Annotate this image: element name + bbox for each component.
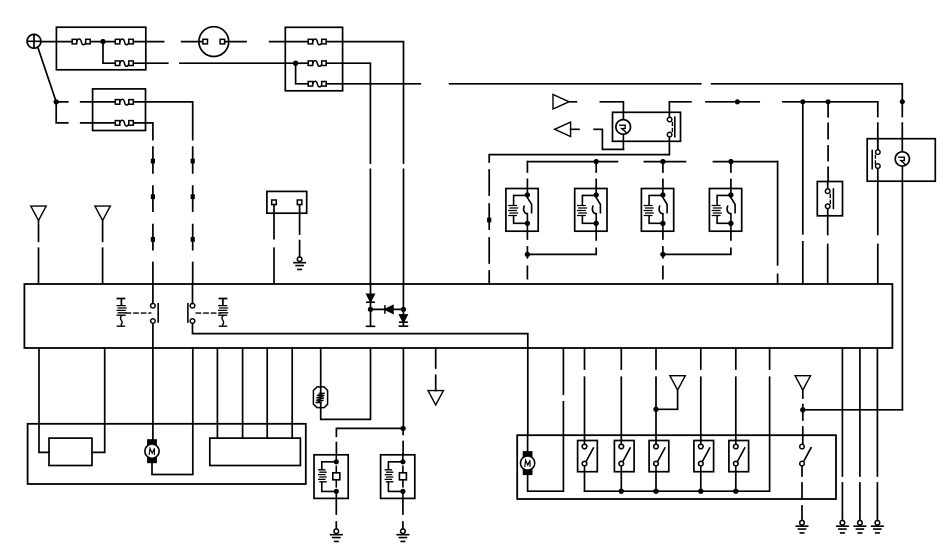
control unit box — [24, 284, 892, 348]
control block — [210, 438, 301, 465]
node connector marker row3 right — [191, 237, 195, 242]
wire sensor4 into block — [291, 424, 293, 438]
wire ECU pin to heater unit second — [104, 348, 106, 424]
wire ECU pin switch4 — [700, 348, 702, 441]
wire tap to connector triangle A — [656, 390, 678, 409]
connector triangle to ignition switch — [553, 95, 569, 110]
node relay feed split — [400, 426, 405, 431]
wire ECU pin relay feed — [402, 348, 404, 428]
fuse box FB1 — [56, 27, 145, 70]
node ignition bus to switch drop — [826, 99, 831, 104]
wire drop ignition bus to control unit — [802, 102, 804, 284]
warning lamp thermal element — [313, 387, 327, 408]
ignition switch box — [613, 112, 681, 141]
wire ECU pin washer motor feed — [527, 348, 529, 435]
node bus relay K4 — [728, 159, 733, 164]
internal relay RYA dashed link — [126, 312, 151, 314]
wire ECU pin sensor4 — [291, 348, 293, 424]
wire ECU pin ground1 — [841, 348, 843, 520]
internal relay RYB dashed link — [196, 312, 221, 314]
node FB3 junction — [293, 61, 298, 66]
ground relay A — [331, 529, 342, 542]
relay K4 — [709, 189, 741, 232]
wire F7 output down to diode D1 — [326, 63, 370, 284]
wire motor1 feed — [152, 424, 154, 445]
wire S2 to bus — [620, 472, 622, 492]
wire ECU pin switch bus — [769, 348, 771, 435]
switch S6 contacts — [800, 444, 811, 466]
connector triangle antenna second — [95, 206, 110, 220]
wire ECU pin sensor3 — [266, 348, 268, 424]
wire junction down to fuse F5 — [56, 102, 115, 123]
switch S4 — [694, 441, 714, 472]
node switch6 tap — [800, 407, 805, 412]
connector triangle antenna left — [31, 206, 46, 220]
relay K3 — [641, 189, 673, 232]
fuse F3 — [115, 61, 133, 67]
wire pin2 to ground — [299, 205, 301, 257]
relay supply bus segment 2 — [644, 161, 685, 163]
wire F1 to F2 — [90, 41, 115, 43]
node bus S3 — [653, 489, 658, 494]
wire F3 output lower bus — [133, 62, 295, 64]
horn relay A box — [314, 455, 348, 499]
node bus S2 — [619, 489, 624, 494]
small switch contacts — [825, 182, 833, 216]
wire ECU pin switch2 — [620, 348, 622, 441]
wire bus to relay K4 — [730, 162, 732, 189]
node connector marker row2 right — [191, 194, 195, 199]
wire points to control unit — [877, 168, 879, 284]
wire rotor down right side — [901, 181, 903, 410]
wire sensor2 into block — [242, 424, 244, 438]
fuse F5 — [115, 120, 133, 126]
switch S2 — [614, 441, 634, 472]
wire pin1 to control unit — [273, 205, 275, 284]
wire RYB switch input — [192, 284, 194, 303]
wire K3 link to control unit — [662, 254, 664, 278]
wire link K3 to K4 — [663, 248, 731, 254]
breaker points — [872, 139, 880, 169]
wire relay K2 output stub — [595, 231, 597, 240]
distributor box — [867, 139, 935, 182]
ground right 2 — [854, 520, 865, 533]
wire ECU pin sensor1 — [216, 348, 218, 424]
diode D1 — [367, 284, 374, 307]
switch S5 — [729, 441, 749, 472]
fuse box FB2 — [93, 89, 146, 131]
wire sensor3 into block — [266, 424, 268, 438]
fuse F2 — [115, 39, 133, 45]
wire ignition switch lower output — [489, 141, 669, 162]
wire triangle to ignition feed — [569, 102, 623, 120]
wire split to horn relay B — [402, 428, 404, 454]
wire ECU pin ground3 — [876, 348, 878, 520]
ground right 1 — [837, 520, 848, 533]
wire junction down to F3 — [103, 42, 115, 64]
wire rotor line to switch6 tap — [803, 409, 903, 411]
node diode junction right — [401, 307, 406, 312]
wire sensor1 into block — [216, 424, 218, 438]
fuse box FB3 — [285, 27, 342, 91]
node diode junction left — [368, 307, 373, 312]
node FB2 feed junction — [54, 99, 59, 104]
motor M2 washer — [521, 452, 535, 474]
wire ECU pin to output triangle — [435, 348, 437, 391]
node FB1 junction — [100, 39, 105, 44]
wire FB3 junction down to F8 — [296, 63, 309, 84]
connector triangle from ignition return — [555, 122, 571, 136]
wire bus to relay K3 — [662, 162, 664, 189]
wire ECU pin to warning lamp — [320, 348, 322, 387]
diode D3 — [399, 284, 407, 326]
fuse F8 — [308, 81, 326, 87]
motor M1 blower — [145, 440, 159, 462]
wire dashed drop from F5 to control unit — [152, 147, 154, 284]
wire F8 output main feed bus — [326, 84, 902, 99]
connector box 2pin — [267, 191, 307, 213]
wire F2 output to ammeter — [133, 41, 203, 43]
wire bus segment 3 drop to control unit — [777, 162, 779, 284]
wire F4 output to dashed drop — [134, 102, 193, 140]
resistor block — [49, 438, 92, 465]
wire motor1 return loop — [152, 424, 193, 475]
wire link K1 to K2 — [527, 248, 596, 254]
relay supply bus segment 3 — [713, 161, 777, 163]
wire into resistor block right — [92, 424, 105, 453]
switch common bus — [585, 435, 770, 491]
wire into resistor block left — [39, 424, 49, 453]
node bus S4 — [698, 489, 703, 494]
wire ECU pin sensor2 — [242, 348, 244, 424]
wire RYB output to wiper motor feed — [193, 323, 528, 348]
wire ECU pin to heater unit left — [38, 348, 40, 424]
node marker on ignition bus — [735, 99, 740, 104]
heater control unit box — [28, 424, 306, 484]
switch S1 — [578, 441, 598, 472]
wire D1 internal terminal — [367, 309, 375, 326]
wire triangle B to tap — [802, 390, 804, 410]
ground switch S6 — [796, 520, 807, 533]
battery positive terminal — [27, 34, 41, 48]
fuse F6 — [308, 39, 326, 45]
fuse F4 — [115, 99, 133, 105]
wire ignition rotor return to connector triangle — [571, 129, 624, 149]
wire ignition switch output bus — [669, 102, 877, 150]
internal relay RYA coil — [117, 299, 126, 327]
wire triangle to control unit — [38, 221, 40, 285]
switch S3 — [649, 441, 669, 472]
small switch box — [817, 182, 842, 216]
wire bus to relay K2 — [595, 162, 597, 189]
wire triangle2 to control unit — [102, 221, 104, 285]
wire relay K4 output stub — [730, 231, 732, 240]
wire battery to fuse box FB1 — [41, 41, 72, 43]
wire bus to relay K1 — [526, 162, 528, 189]
diode D2 horizontal — [371, 306, 404, 313]
horn relay B box — [381, 455, 415, 499]
wire relay A to ground — [335, 498, 337, 528]
connector triangle B — [795, 376, 810, 390]
wire lamp loop to diode pin — [321, 348, 371, 419]
internal relay RYB coil — [219, 299, 228, 327]
relay supply bus segment 1 — [527, 161, 617, 163]
wire switch S6 to ground — [801, 466, 803, 520]
ground right 3 — [872, 520, 883, 533]
distributor rotor — [895, 152, 909, 181]
wire F7 input — [296, 62, 309, 64]
node bus relay K3 — [660, 159, 665, 164]
node connector marker row2 left — [151, 194, 155, 199]
node ignition bus to ECU drop — [800, 99, 805, 104]
wire battery diagonal to fuse box FB2 feed — [38, 47, 57, 102]
node connector marker on drop — [487, 218, 491, 223]
wire relay K1 output — [526, 231, 528, 254]
wire S1 to bus — [584, 472, 586, 492]
wire dashed drop to control unit left — [488, 170, 490, 284]
wire K1 link to control unit — [526, 254, 528, 278]
wire F5 output to dashed drop — [134, 123, 153, 140]
wire ECU pin washer motor return — [562, 348, 564, 435]
ignition switch contacts — [667, 112, 675, 141]
internal relay RYA contacts — [151, 303, 159, 323]
node switch3 tap — [653, 407, 658, 412]
wire tap down to switch6 — [802, 410, 804, 445]
wire S4 to bus — [700, 472, 702, 492]
ground relay B — [397, 529, 408, 542]
wire washer motor feed inside — [527, 435, 529, 452]
connector pin 2 — [297, 200, 302, 205]
node relay K1 link — [525, 252, 530, 257]
fuse F1 — [72, 39, 90, 45]
wire dashed drop from F4 to control unit — [192, 147, 194, 284]
wire ECU pin wiper motor return — [192, 348, 194, 424]
wire S5 to bus — [735, 472, 737, 492]
wire RYA switch through — [152, 284, 154, 348]
switch panel box — [517, 435, 836, 499]
wire small switch to control unit — [827, 216, 829, 284]
wire ammeter to fuse box FB3 — [225, 41, 309, 43]
wire relay B to ground — [402, 498, 404, 528]
internal relay RYB contacts — [188, 303, 195, 323]
wire relay K3 output — [662, 231, 664, 254]
wire ECU pin switch5 — [735, 348, 737, 441]
node connector marker row1 left — [151, 159, 155, 164]
ammeter — [199, 27, 229, 57]
wire ECU pin switch1 — [584, 348, 586, 441]
wire S3 to bus — [655, 472, 657, 492]
node marker on right drop — [900, 99, 905, 104]
ignition switch rotor — [616, 120, 631, 150]
node bus S5 — [733, 489, 738, 494]
fuse F7 — [308, 61, 326, 67]
connector pin 1 — [272, 200, 277, 205]
node connector marker row1 right — [191, 159, 195, 164]
node relay K3 link — [660, 252, 665, 257]
wire F6 output down to diode D3 — [326, 42, 403, 284]
wire right feed drop to distributor — [901, 104, 903, 152]
wire junction to fuse F4 — [56, 101, 115, 103]
node connector marker row3 left — [151, 237, 155, 242]
wire motor2 return loop — [528, 435, 564, 491]
ground connector box — [294, 257, 305, 270]
wire dashed drop to small switch — [827, 102, 829, 182]
relay K1 — [506, 189, 538, 232]
connector triangle output — [428, 391, 443, 405]
wire ECU pin switch3 — [655, 348, 657, 441]
node bus relay K2 — [594, 159, 599, 164]
relay K2 — [575, 189, 607, 232]
wire split to horn relay A — [336, 428, 403, 454]
connector triangle A — [670, 376, 685, 390]
wire ECU pin wiper motor feed — [152, 348, 154, 424]
wire ECU pin ground2 — [859, 348, 861, 520]
